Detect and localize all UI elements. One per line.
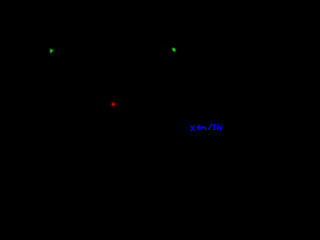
- blue signature: letter X: [191, 126, 195, 131]
- blue signature: y-like char with dot: [220, 124, 223, 131]
- red light blob: [111, 99, 116, 106]
- green marker left: [50, 49, 53, 54]
- blue signature: small v squiggle: [217, 125, 219, 130]
- green marker right: [172, 48, 176, 52]
- blue signature: slash: [209, 124, 212, 130]
- blue signature: I-like char with serifs: [213, 125, 217, 130]
- blue signature: f-like squiggle with long bar: [198, 125, 206, 129]
